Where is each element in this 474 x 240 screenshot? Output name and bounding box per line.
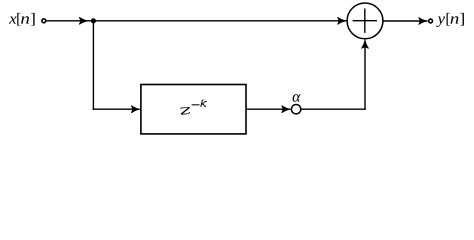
- input terminal circle: [42, 19, 46, 23]
- alpha gain node circle: [291, 105, 300, 114]
- node y[n] output label: [436, 13, 464, 27]
- wire: junction down: [92, 21, 94, 110]
- arrowhead into output terminal: [419, 17, 428, 24]
- wire: corner to delay block: [93, 108, 139, 110]
- junction dot: [91, 18, 96, 23]
- plus sign horizontal: [353, 20, 377, 22]
- node x[n] input label: [9, 13, 35, 26]
- wire: delay block to alpha node: [246, 108, 290, 110]
- output terminal circle: [429, 19, 433, 23]
- wire: summer to output terminal: [383, 20, 428, 22]
- wire: riser up into summer: [364, 41, 366, 110]
- arrowhead into summer (bottom): [361, 40, 368, 49]
- delay block rectangle: [141, 85, 246, 134]
- arrowhead into junction: [79, 17, 88, 24]
- arrowhead into delay block: [131, 106, 140, 113]
- arrowhead into summer (left): [338, 17, 347, 24]
- plus sign vertical: [364, 9, 366, 33]
- summer circle: [347, 3, 383, 39]
- arrowhead into alpha node: [282, 106, 291, 113]
- wire: junction to summer: [93, 20, 346, 22]
- label z^-k: [181, 100, 206, 114]
- label alpha: [293, 94, 301, 102]
- wire: input terminal to junction: [46, 20, 91, 22]
- wire: alpha node to riser corner: [302, 108, 366, 110]
